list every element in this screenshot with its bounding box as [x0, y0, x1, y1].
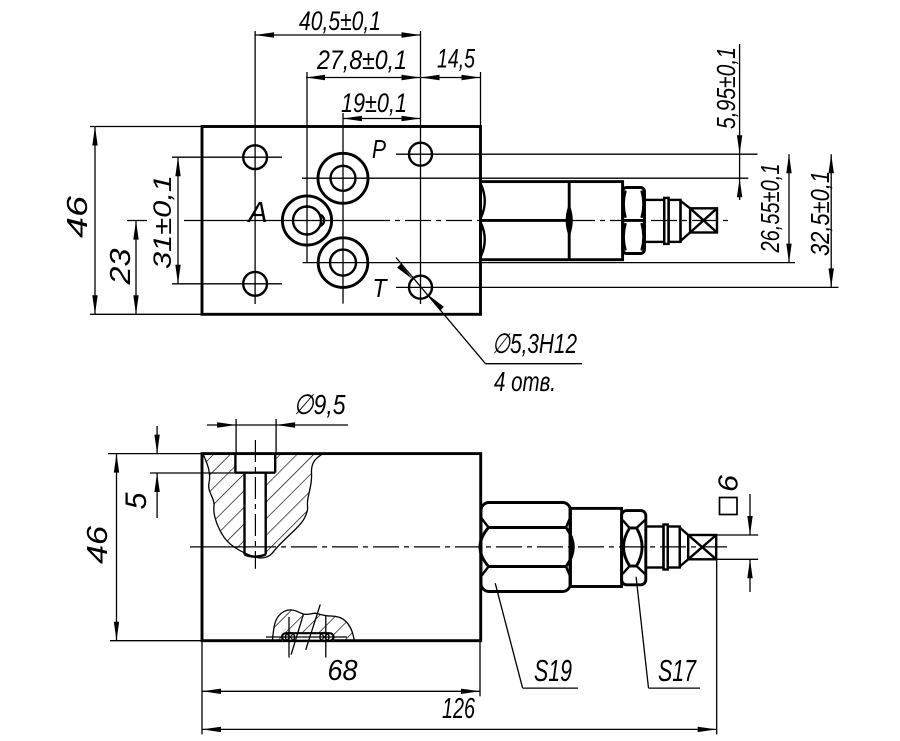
svg-text:A: A [247, 197, 268, 229]
svg-text:T: T [373, 273, 389, 303]
svg-text:5,95±0,1: 5,95±0,1 [711, 47, 741, 129]
svg-text:6: 6 [713, 475, 744, 492]
svg-text:∅5,3H12: ∅5,3H12 [492, 328, 577, 359]
svg-text:68: 68 [328, 655, 358, 687]
svg-text:46: 46 [82, 525, 114, 564]
svg-text:S17: S17 [658, 653, 697, 688]
svg-text:27,8±0,1: 27,8±0,1 [316, 45, 407, 75]
svg-text:23: 23 [105, 249, 137, 286]
svg-text:26,55±0,1: 26,55±0,1 [755, 164, 785, 254]
svg-text:32,5±0,1: 32,5±0,1 [805, 171, 835, 256]
svg-text:∅9,5: ∅9,5 [294, 389, 346, 420]
svg-text:19±0,1: 19±0,1 [341, 88, 407, 118]
svg-text:126: 126 [442, 693, 476, 725]
svg-text:40,5±0,1: 40,5±0,1 [299, 6, 381, 36]
svg-text:4 отв.: 4 отв. [494, 366, 556, 397]
svg-text:S19: S19 [534, 653, 572, 688]
svg-text:14,5: 14,5 [437, 44, 476, 74]
svg-text:5: 5 [120, 492, 153, 509]
svg-text:P: P [372, 134, 387, 164]
svg-text:46: 46 [62, 195, 94, 238]
svg-text:31±0,1: 31±0,1 [149, 175, 177, 269]
